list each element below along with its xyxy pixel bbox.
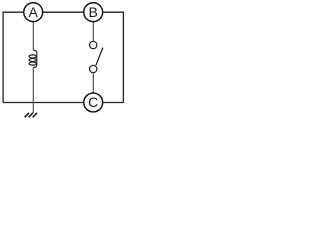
switch S1 blade: [96, 48, 103, 66]
wire switch down to node C: [92, 73, 94, 93]
inductor L1 coil: [29, 50, 37, 67]
wire node A to node B: [43, 11, 83, 13]
svg-text:C: C: [88, 94, 98, 110]
switch S1 lower terminal: [90, 65, 97, 72]
wire bottom-left corner to node C: [3, 102, 83, 104]
svg-text:A: A: [29, 4, 39, 20]
switch S1 upper terminal: [90, 41, 97, 48]
node A: [24, 3, 43, 22]
wire node B down to switch: [92, 22, 94, 41]
node B: [84, 3, 103, 22]
wire top-left corner to node A: [3, 12, 23, 102]
wire node B to top-right corner down to bottom-right corner: [103, 12, 123, 102]
ground: [25, 113, 37, 118]
node C: [84, 93, 103, 112]
wire node A down to inductor: [32, 22, 34, 50]
svg-text:B: B: [89, 4, 98, 20]
wire inductor to ground through bottom wire: [32, 68, 34, 113]
